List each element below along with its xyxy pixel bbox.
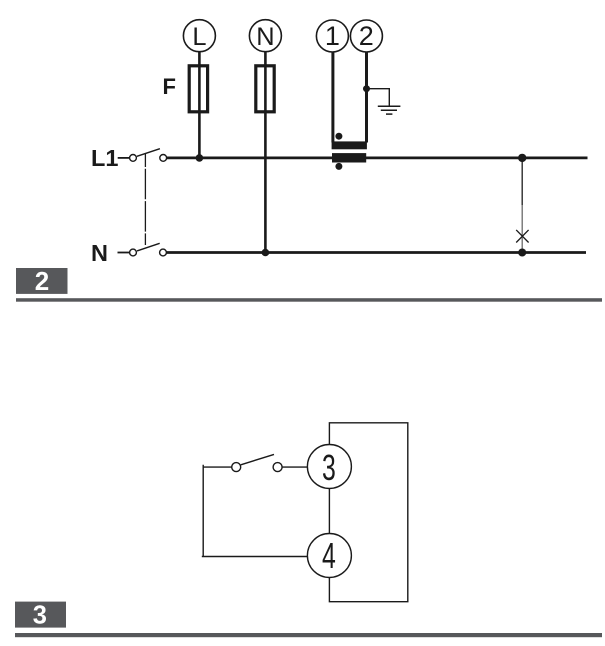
figure 3 rule xyxy=(15,633,602,637)
wire L1 stub xyxy=(118,157,130,159)
terminal N xyxy=(249,20,281,52)
wire loop rectangle xyxy=(329,423,407,602)
svg-text:N: N xyxy=(256,23,274,51)
figure label 3 box xyxy=(15,602,66,630)
terminal 4 xyxy=(307,534,351,578)
terminal 2 xyxy=(350,20,382,52)
terminal L xyxy=(183,20,215,52)
wire N terminal to N line xyxy=(264,52,267,253)
switch S left contact xyxy=(232,463,241,472)
wire load branch (upper segment) xyxy=(521,158,523,205)
terminal 3 xyxy=(307,445,351,489)
wire terminal 2 to CT secondary xyxy=(365,52,368,143)
svg-text:2: 2 xyxy=(35,266,49,296)
switch L1 blade xyxy=(137,149,160,157)
switch N blade xyxy=(137,243,160,251)
wire S stub to left contact xyxy=(203,466,231,468)
node L fuse to L1 line xyxy=(196,154,204,162)
switch N right contact xyxy=(160,249,167,256)
ground symbol xyxy=(378,106,401,114)
switch S right contact xyxy=(273,463,282,472)
switch S blade xyxy=(241,454,274,464)
node load to L1 line xyxy=(518,154,526,162)
wire N line xyxy=(167,251,586,254)
wire between terminal 3 and 4 xyxy=(328,488,330,534)
CT polarity dot primary xyxy=(335,163,342,170)
wire L terminal to L1 line xyxy=(198,52,201,158)
figure 2 rule xyxy=(16,298,602,302)
switch L1 right contact xyxy=(160,155,167,162)
figure label 2 box xyxy=(16,266,68,296)
wire S left branch xyxy=(202,465,308,557)
mechanical link dashed xyxy=(144,154,146,245)
svg-text:1: 1 xyxy=(325,21,340,51)
node load to N line xyxy=(518,249,526,257)
svg-text:L1: L1 xyxy=(91,145,118,171)
wire L1 line xyxy=(167,156,588,159)
switch N pole left contact xyxy=(130,249,137,256)
svg-text:2: 2 xyxy=(359,21,374,51)
svg-text:4: 4 xyxy=(322,535,336,576)
wire ground branch xyxy=(367,89,390,107)
CT primary bar (on L1 line) xyxy=(332,153,366,162)
CT polarity dot secondary xyxy=(335,133,342,140)
svg-text:3: 3 xyxy=(33,602,47,630)
wire load branch (lower segment) xyxy=(521,205,523,252)
terminal 1 xyxy=(316,20,348,52)
wire switch to terminal 3 xyxy=(282,466,307,468)
svg-text:N: N xyxy=(91,240,108,266)
svg-text:3: 3 xyxy=(322,447,336,488)
node N fuse to N line xyxy=(262,249,270,257)
svg-text:F: F xyxy=(163,74,176,99)
junction dot ground tap on wire 2 xyxy=(363,85,370,92)
fuse (N conductor) xyxy=(256,66,274,112)
wire terminal 1 to CT secondary xyxy=(331,52,334,143)
svg-text:L: L xyxy=(192,23,206,51)
switch L1 pole left contact xyxy=(130,155,137,162)
CT secondary bar (upper) xyxy=(332,141,367,149)
load mark X xyxy=(516,230,528,243)
wire N stub xyxy=(118,252,130,254)
fuse F (L phase) xyxy=(189,66,207,112)
